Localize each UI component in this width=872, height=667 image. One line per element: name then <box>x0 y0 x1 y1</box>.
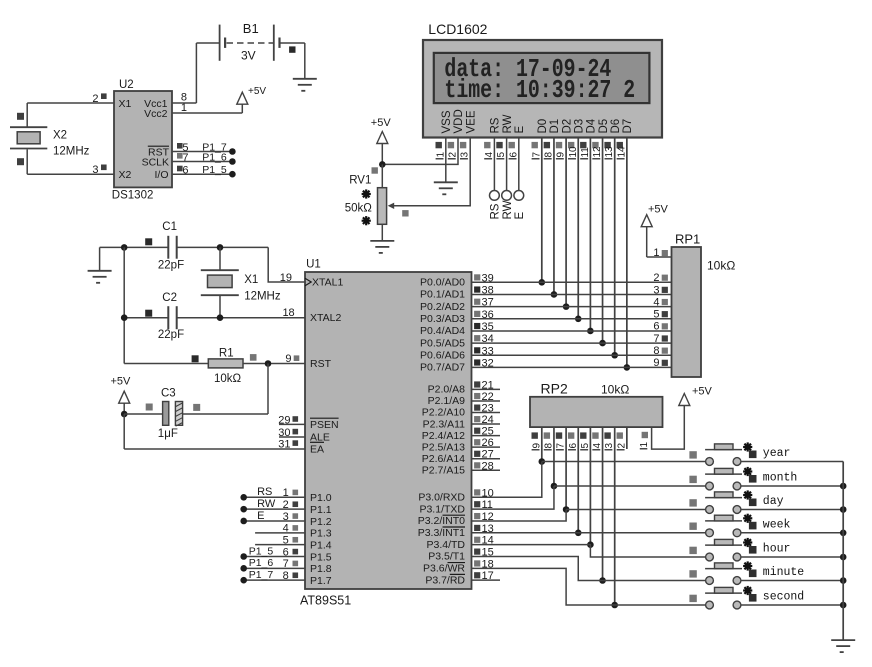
svg-text:8: 8 <box>543 443 554 449</box>
svg-text:12MHz: 12MHz <box>53 146 90 158</box>
svg-text:6: 6 <box>283 546 289 558</box>
svg-text:P0.5/AD5: P0.5/AD5 <box>420 337 465 349</box>
svg-text:+5V: +5V <box>111 375 132 387</box>
svg-text:2: 2 <box>92 93 98 105</box>
svg-text:VSS: VSS <box>441 110 453 133</box>
svg-text:10: 10 <box>568 146 579 158</box>
svg-text:7: 7 <box>531 152 542 158</box>
svg-text:12MHz: 12MHz <box>244 291 281 303</box>
svg-text:9: 9 <box>531 443 542 449</box>
svg-text:1: 1 <box>435 152 446 158</box>
svg-text:RW: RW <box>502 114 514 133</box>
svg-text:30: 30 <box>278 427 290 439</box>
svg-text:P2.7/A15: P2.7/A15 <box>422 464 465 476</box>
svg-text:+5V: +5V <box>648 204 669 216</box>
svg-text:EA: EA <box>310 443 324 455</box>
svg-text:2: 2 <box>653 272 659 284</box>
svg-text:day: day <box>763 495 784 508</box>
svg-text:10kΩ: 10kΩ <box>707 259 735 273</box>
svg-text:P0.6/AD6: P0.6/AD6 <box>420 349 465 361</box>
svg-text:C1: C1 <box>162 221 177 233</box>
svg-text:P2.2/A10: P2.2/A10 <box>422 407 465 419</box>
svg-text:50kΩ: 50kΩ <box>345 202 373 214</box>
svg-text:1: 1 <box>653 247 659 259</box>
svg-text:RV1: RV1 <box>349 175 371 187</box>
svg-text:Vcc2: Vcc2 <box>144 108 168 120</box>
svg-text:P1.8: P1.8 <box>310 563 332 575</box>
svg-text:10kΩ: 10kΩ <box>601 383 629 397</box>
svg-text:3: 3 <box>653 284 659 296</box>
svg-text:D0: D0 <box>537 119 549 134</box>
svg-text:D3: D3 <box>573 119 585 134</box>
svg-text:P0.1/AD1: P0.1/AD1 <box>420 289 465 301</box>
svg-text:9: 9 <box>285 353 291 365</box>
svg-text:9: 9 <box>653 357 659 369</box>
svg-text:DS1302: DS1302 <box>112 190 154 202</box>
svg-text:XTAL2: XTAL2 <box>310 312 341 324</box>
svg-text:11: 11 <box>580 147 591 158</box>
svg-text:5: 5 <box>496 152 507 158</box>
svg-text:3V: 3V <box>241 49 256 63</box>
svg-text:P1.3: P1.3 <box>310 528 332 540</box>
svg-text:D2: D2 <box>561 119 573 134</box>
svg-text:X1: X1 <box>119 98 132 110</box>
svg-text:PSEN: PSEN <box>310 419 339 431</box>
svg-text:SCLK: SCLK <box>142 156 169 168</box>
svg-text:P1_5: P1_5 <box>202 164 227 176</box>
svg-text:2: 2 <box>283 499 289 511</box>
svg-text:P3.0/RXD: P3.0/RXD <box>418 492 465 504</box>
svg-text:P3.1/TXD: P3.1/TXD <box>419 503 465 515</box>
svg-text:D1: D1 <box>549 119 561 134</box>
svg-text:1: 1 <box>639 442 650 448</box>
svg-text:D7: D7 <box>622 119 634 134</box>
svg-text:2: 2 <box>616 443 627 449</box>
svg-text:AT89S51: AT89S51 <box>300 594 351 608</box>
svg-text:P3.6/WR: P3.6/WR <box>423 563 465 575</box>
svg-text:RP2: RP2 <box>541 381 568 397</box>
svg-text:RW: RW <box>502 200 514 219</box>
svg-text:D5: D5 <box>598 119 610 134</box>
svg-text:RS: RS <box>257 486 272 498</box>
svg-text:RST: RST <box>310 358 332 370</box>
svg-text:P2.3/A11: P2.3/A11 <box>423 418 466 430</box>
svg-text:P2.1/A9: P2.1/A9 <box>428 395 466 407</box>
svg-text:P3.5/T1: P3.5/T1 <box>428 551 465 563</box>
svg-text:time: 10:39:27 2: time: 10:39:27 2 <box>444 76 635 105</box>
svg-text:22pF: 22pF <box>158 329 184 341</box>
svg-text:7: 7 <box>556 443 567 449</box>
svg-text:P2.6/A14: P2.6/A14 <box>422 453 465 465</box>
svg-text:4: 4 <box>484 152 495 158</box>
svg-text:I/O: I/O <box>154 169 168 181</box>
svg-text:RS: RS <box>490 117 502 133</box>
svg-text:1: 1 <box>283 487 289 499</box>
svg-text:6: 6 <box>508 152 519 158</box>
svg-text:P0.3/AD3: P0.3/AD3 <box>420 313 465 325</box>
svg-text:8: 8 <box>283 570 289 582</box>
svg-text:18: 18 <box>282 307 294 319</box>
svg-text:4: 4 <box>283 523 289 535</box>
svg-text:RP1: RP1 <box>675 231 700 246</box>
svg-text:B1: B1 <box>243 21 259 36</box>
svg-text:X1: X1 <box>244 274 258 286</box>
svg-text:P2.5/A13: P2.5/A13 <box>422 441 465 453</box>
svg-text:U2: U2 <box>119 79 134 91</box>
svg-text:X2: X2 <box>53 130 67 142</box>
svg-text:4: 4 <box>653 296 659 308</box>
svg-text:3: 3 <box>283 511 289 523</box>
svg-text:5: 5 <box>283 534 289 546</box>
svg-text:E: E <box>257 510 264 522</box>
svg-text:RS: RS <box>490 203 502 219</box>
svg-text:VDD: VDD <box>453 109 465 133</box>
svg-text:E: E <box>514 212 526 220</box>
svg-text:22pF: 22pF <box>158 259 184 271</box>
svg-text:+5V: +5V <box>371 117 392 129</box>
svg-text:19: 19 <box>280 272 292 284</box>
svg-text:7: 7 <box>283 558 289 570</box>
svg-text:D6: D6 <box>610 119 622 134</box>
svg-text:7: 7 <box>653 333 659 345</box>
svg-text:+5V: +5V <box>248 86 266 97</box>
svg-text:month: month <box>763 472 798 485</box>
svg-text:9: 9 <box>556 152 567 158</box>
svg-text:P3.3/INT1: P3.3/INT1 <box>418 527 465 539</box>
svg-text:P1.0: P1.0 <box>310 492 332 504</box>
svg-text:P0.0/AD0: P0.0/AD0 <box>420 277 465 289</box>
svg-text:U1: U1 <box>306 259 321 271</box>
svg-text:R1: R1 <box>219 347 234 359</box>
svg-text:hour: hour <box>763 543 791 556</box>
svg-text:P2.4/A12: P2.4/A12 <box>422 430 465 442</box>
svg-text:P1_6: P1_6 <box>249 557 274 569</box>
svg-text:minute: minute <box>763 566 805 579</box>
svg-text:year: year <box>763 447 791 460</box>
svg-text:P1_5: P1_5 <box>249 545 274 557</box>
svg-text:XTAL1: XTAL1 <box>312 277 343 289</box>
svg-text:P1.7: P1.7 <box>310 575 332 587</box>
svg-text:3: 3 <box>604 443 615 449</box>
svg-text:7: 7 <box>182 152 188 164</box>
svg-text:P0.4/AD4: P0.4/AD4 <box>420 325 465 337</box>
svg-text:P0.2/AD2: P0.2/AD2 <box>420 301 465 313</box>
svg-text:3: 3 <box>460 152 471 158</box>
svg-text:31: 31 <box>278 439 290 451</box>
svg-text:P1.5: P1.5 <box>310 551 332 563</box>
svg-text:5: 5 <box>653 309 659 321</box>
svg-text:week: week <box>763 518 791 531</box>
svg-text:LCD1602: LCD1602 <box>428 21 487 37</box>
svg-text:6: 6 <box>568 443 579 449</box>
svg-text:1μF: 1μF <box>158 428 178 440</box>
svg-text:D4: D4 <box>586 118 598 133</box>
svg-text:10kΩ: 10kΩ <box>214 373 242 385</box>
svg-text:3: 3 <box>92 164 98 176</box>
svg-text:5: 5 <box>580 443 591 449</box>
svg-text:P0.7/AD7: P0.7/AD7 <box>420 362 465 374</box>
svg-text:C3: C3 <box>161 388 176 400</box>
svg-text:2: 2 <box>448 152 459 158</box>
svg-text:P1_6: P1_6 <box>202 151 227 163</box>
svg-text:P1_7: P1_7 <box>249 569 274 581</box>
svg-text:P1.4: P1.4 <box>310 539 332 551</box>
svg-text:X2: X2 <box>119 169 132 181</box>
svg-text:VEE: VEE <box>465 110 477 133</box>
svg-text:E: E <box>514 126 526 134</box>
svg-text:P1.1: P1.1 <box>310 504 332 516</box>
svg-text:P3.4/TD: P3.4/TD <box>426 539 465 551</box>
svg-text:12: 12 <box>592 146 603 158</box>
svg-text:8: 8 <box>543 152 554 158</box>
svg-text:RW: RW <box>257 498 276 510</box>
svg-text:6: 6 <box>182 165 188 177</box>
svg-text:4: 4 <box>592 443 603 449</box>
svg-text:P2.0/A8: P2.0/A8 <box>428 384 466 396</box>
svg-text:14: 14 <box>616 146 627 158</box>
svg-text:second: second <box>763 591 804 604</box>
svg-text:C2: C2 <box>162 292 177 304</box>
svg-text:P3.2/INT0: P3.2/INT0 <box>418 515 465 527</box>
svg-text:P3.7/RD: P3.7/RD <box>425 574 465 586</box>
svg-text:P1.2: P1.2 <box>310 516 332 528</box>
svg-text:6: 6 <box>653 321 659 333</box>
svg-text:1: 1 <box>181 102 187 114</box>
svg-text:29: 29 <box>278 414 290 426</box>
svg-text:13: 13 <box>604 146 615 158</box>
svg-text:8: 8 <box>653 345 659 357</box>
svg-text:+5V: +5V <box>692 386 713 398</box>
